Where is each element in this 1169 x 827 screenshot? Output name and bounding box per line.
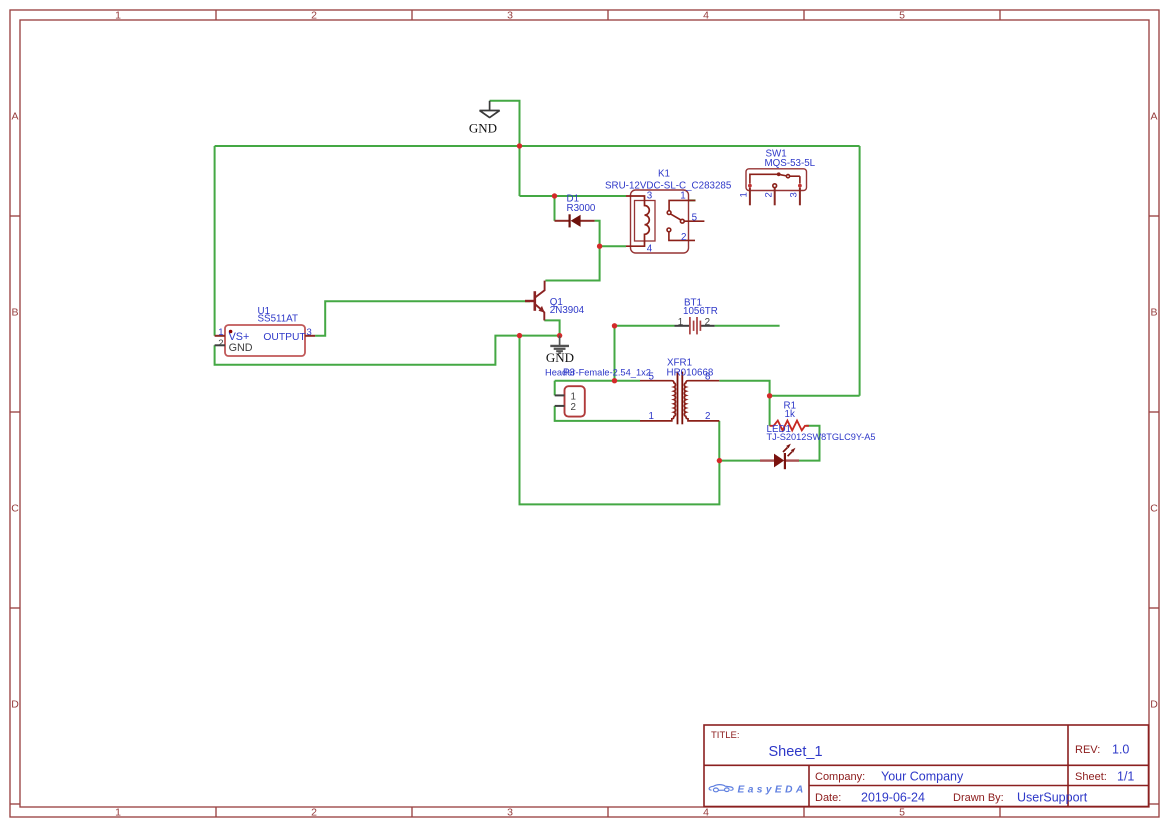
wire xfr pin2 down <box>718 421 720 461</box>
svg-text:EasyEDA: EasyEDA <box>738 784 807 795</box>
svg-text:4: 4 <box>703 10 709 22</box>
svg-text:2: 2 <box>705 317 710 328</box>
svg-text:Sheet_1: Sheet_1 <box>769 744 823 760</box>
wire left drop to U1 pin1 <box>214 146 216 336</box>
svg-text:3: 3 <box>307 327 312 338</box>
svg-text:GND: GND <box>546 350 574 365</box>
svg-text:2: 2 <box>571 402 576 413</box>
U1 pin 1 VS+ stub <box>215 335 225 337</box>
svg-text:3: 3 <box>647 191 653 202</box>
svg-text:D: D <box>1150 699 1158 711</box>
svg-text:4: 4 <box>647 243 653 254</box>
wire xfr pin5 run <box>555 380 640 382</box>
svg-text:OUTPUT: OUTPUT <box>263 332 306 343</box>
junction at U1 pin2 net <box>517 333 522 338</box>
svg-text:UserSupport: UserSupport <box>1017 791 1088 805</box>
frame row letters left <box>11 111 19 711</box>
wire battery left <box>615 325 675 327</box>
wire top bus <box>215 145 860 147</box>
U1 pin 2 GND stub <box>215 344 225 346</box>
svg-text:2: 2 <box>681 232 686 243</box>
svg-text:1: 1 <box>739 192 750 197</box>
junction at D1 anode branch <box>552 193 557 198</box>
svg-text:SRU-12VDC-SL-C_C283285: SRU-12VDC-SL-C_C283285 <box>605 180 732 191</box>
svg-text:C: C <box>11 503 19 515</box>
transistor Q1 2N3904 <box>525 281 545 321</box>
wire D1 anode branch <box>554 196 556 221</box>
svg-text:B: B <box>1150 307 1157 319</box>
svg-text:2: 2 <box>311 807 317 819</box>
wire right drop <box>859 146 861 396</box>
svg-text:1: 1 <box>115 10 121 22</box>
svg-text:3: 3 <box>507 10 513 22</box>
wire header pin1 <box>554 381 556 396</box>
svg-text:B: B <box>11 307 18 319</box>
svg-text:MQS-53-5L: MQS-53-5L <box>765 158 816 169</box>
transformer XFR1 <box>640 372 719 425</box>
junction at relay pin4 node <box>597 244 602 249</box>
relay contacts <box>667 200 704 240</box>
wire to relay pin3 <box>520 195 627 197</box>
wire R1 junction to right drop <box>770 395 860 397</box>
svg-text:GND: GND <box>469 121 497 136</box>
wire relay pin4 junction down to Q1 collector <box>545 246 599 280</box>
frame column numbers bottom <box>115 807 905 819</box>
svg-text:D: D <box>11 699 19 711</box>
junction at XFR1 pin8 / R1 node <box>767 393 772 398</box>
svg-text:3: 3 <box>507 807 513 819</box>
wire GND1 to bus drop <box>490 101 520 196</box>
wire header pin2 to xfr pin1 <box>555 406 640 421</box>
svg-text:5: 5 <box>649 372 655 383</box>
svg-text:TJ-S2012SW8TGLC9Y-A5: TJ-S2012SW8TGLC9Y-A5 <box>767 432 876 442</box>
wire Q1 emitter down <box>544 320 559 335</box>
wire D1 cathode to relay pin4 <box>595 221 626 246</box>
svg-text:GND: GND <box>229 342 253 354</box>
svg-text:1k: 1k <box>785 409 795 420</box>
wire emitter junction to left junction <box>520 335 560 337</box>
svg-text:A: A <box>1150 111 1157 123</box>
wire battery right open end <box>715 325 780 327</box>
svg-text:R3000: R3000 <box>567 203 596 214</box>
U1 pin 3 OUTPUT stub <box>305 335 315 337</box>
EasyEDA logo <box>709 785 733 792</box>
title block <box>704 725 1149 807</box>
junction on XFR1 pin5 wire <box>612 378 617 383</box>
svg-text:K1: K1 <box>658 169 670 180</box>
relay coil <box>626 196 649 246</box>
svg-text:1: 1 <box>649 411 654 422</box>
wire R1 junction down to resistor <box>769 396 771 426</box>
frame row letters right <box>1150 111 1158 711</box>
svg-text:Drawn By:: Drawn By: <box>953 792 1004 804</box>
svg-text:5: 5 <box>692 212 698 223</box>
svg-text:1: 1 <box>115 807 121 819</box>
svg-text:5: 5 <box>899 10 905 22</box>
svg-text:C: C <box>1150 503 1158 515</box>
svg-text:2: 2 <box>311 10 317 22</box>
wires green <box>215 101 860 505</box>
switch SW1 <box>746 169 807 191</box>
wire long left drop to bottom <box>520 336 720 505</box>
svg-text:2: 2 <box>218 338 223 349</box>
svg-text:Sheet:: Sheet: <box>1075 771 1107 783</box>
svg-text:1: 1 <box>571 391 576 402</box>
svg-text:Company:: Company: <box>815 771 865 783</box>
svg-text:1/1: 1/1 <box>1117 770 1134 784</box>
junction at BT1 pin1 branch <box>612 323 617 328</box>
header P3 Header-Female-2.54_1x2 <box>555 386 585 416</box>
svg-text:2: 2 <box>763 192 774 197</box>
wire R1 right to LED cathode <box>799 426 820 461</box>
wire to U1 pin2 <box>215 336 520 365</box>
svg-text:1.0: 1.0 <box>1112 743 1129 757</box>
LED1 <box>760 444 799 470</box>
battery BT1 <box>675 317 715 334</box>
svg-text:TITLE:: TITLE: <box>711 730 740 741</box>
svg-text:REV:: REV: <box>1075 744 1100 756</box>
svg-text:Header-Female-2.54_1x2: Header-Female-2.54_1x2 <box>545 367 651 377</box>
svg-text:2: 2 <box>705 411 710 422</box>
svg-text:Date:: Date: <box>815 792 841 804</box>
wire LED junction to anode <box>719 460 760 462</box>
junction at LED1 anode node <box>717 458 722 463</box>
svg-text:3: 3 <box>789 192 800 197</box>
svg-text:1: 1 <box>680 191 685 202</box>
svg-text:5: 5 <box>899 807 905 819</box>
resistor R1 1k <box>770 421 809 431</box>
svg-text:1: 1 <box>678 317 683 328</box>
relay K1 <box>631 190 689 253</box>
frame column numbers top <box>115 10 905 22</box>
svg-text:SS511AT: SS511AT <box>258 314 298 325</box>
diode D1 R3000 <box>555 214 595 227</box>
ground GND1 <box>480 101 500 118</box>
IC U1 SS511AT body <box>225 325 305 356</box>
wire U1 pin3 to Q1 base <box>315 301 530 336</box>
wire battery branch <box>614 326 616 381</box>
ground GND2 earth <box>550 336 569 354</box>
svg-text:1056TR: 1056TR <box>683 306 718 317</box>
wire xfr pin8 to R1 junction <box>719 381 769 396</box>
wire relay pin1 nub <box>689 199 696 201</box>
junction on top bus at GND drop <box>517 143 522 148</box>
svg-text:4: 4 <box>703 807 709 819</box>
svg-text:Your Company: Your Company <box>881 770 964 784</box>
svg-text:2019-06-24: 2019-06-24 <box>861 791 925 805</box>
svg-text:1: 1 <box>218 327 223 338</box>
svg-text:8: 8 <box>705 372 711 383</box>
svg-text:2N3904: 2N3904 <box>550 305 585 316</box>
junction at Q1 emitter / GND node <box>557 333 562 338</box>
svg-text:A: A <box>11 111 18 123</box>
